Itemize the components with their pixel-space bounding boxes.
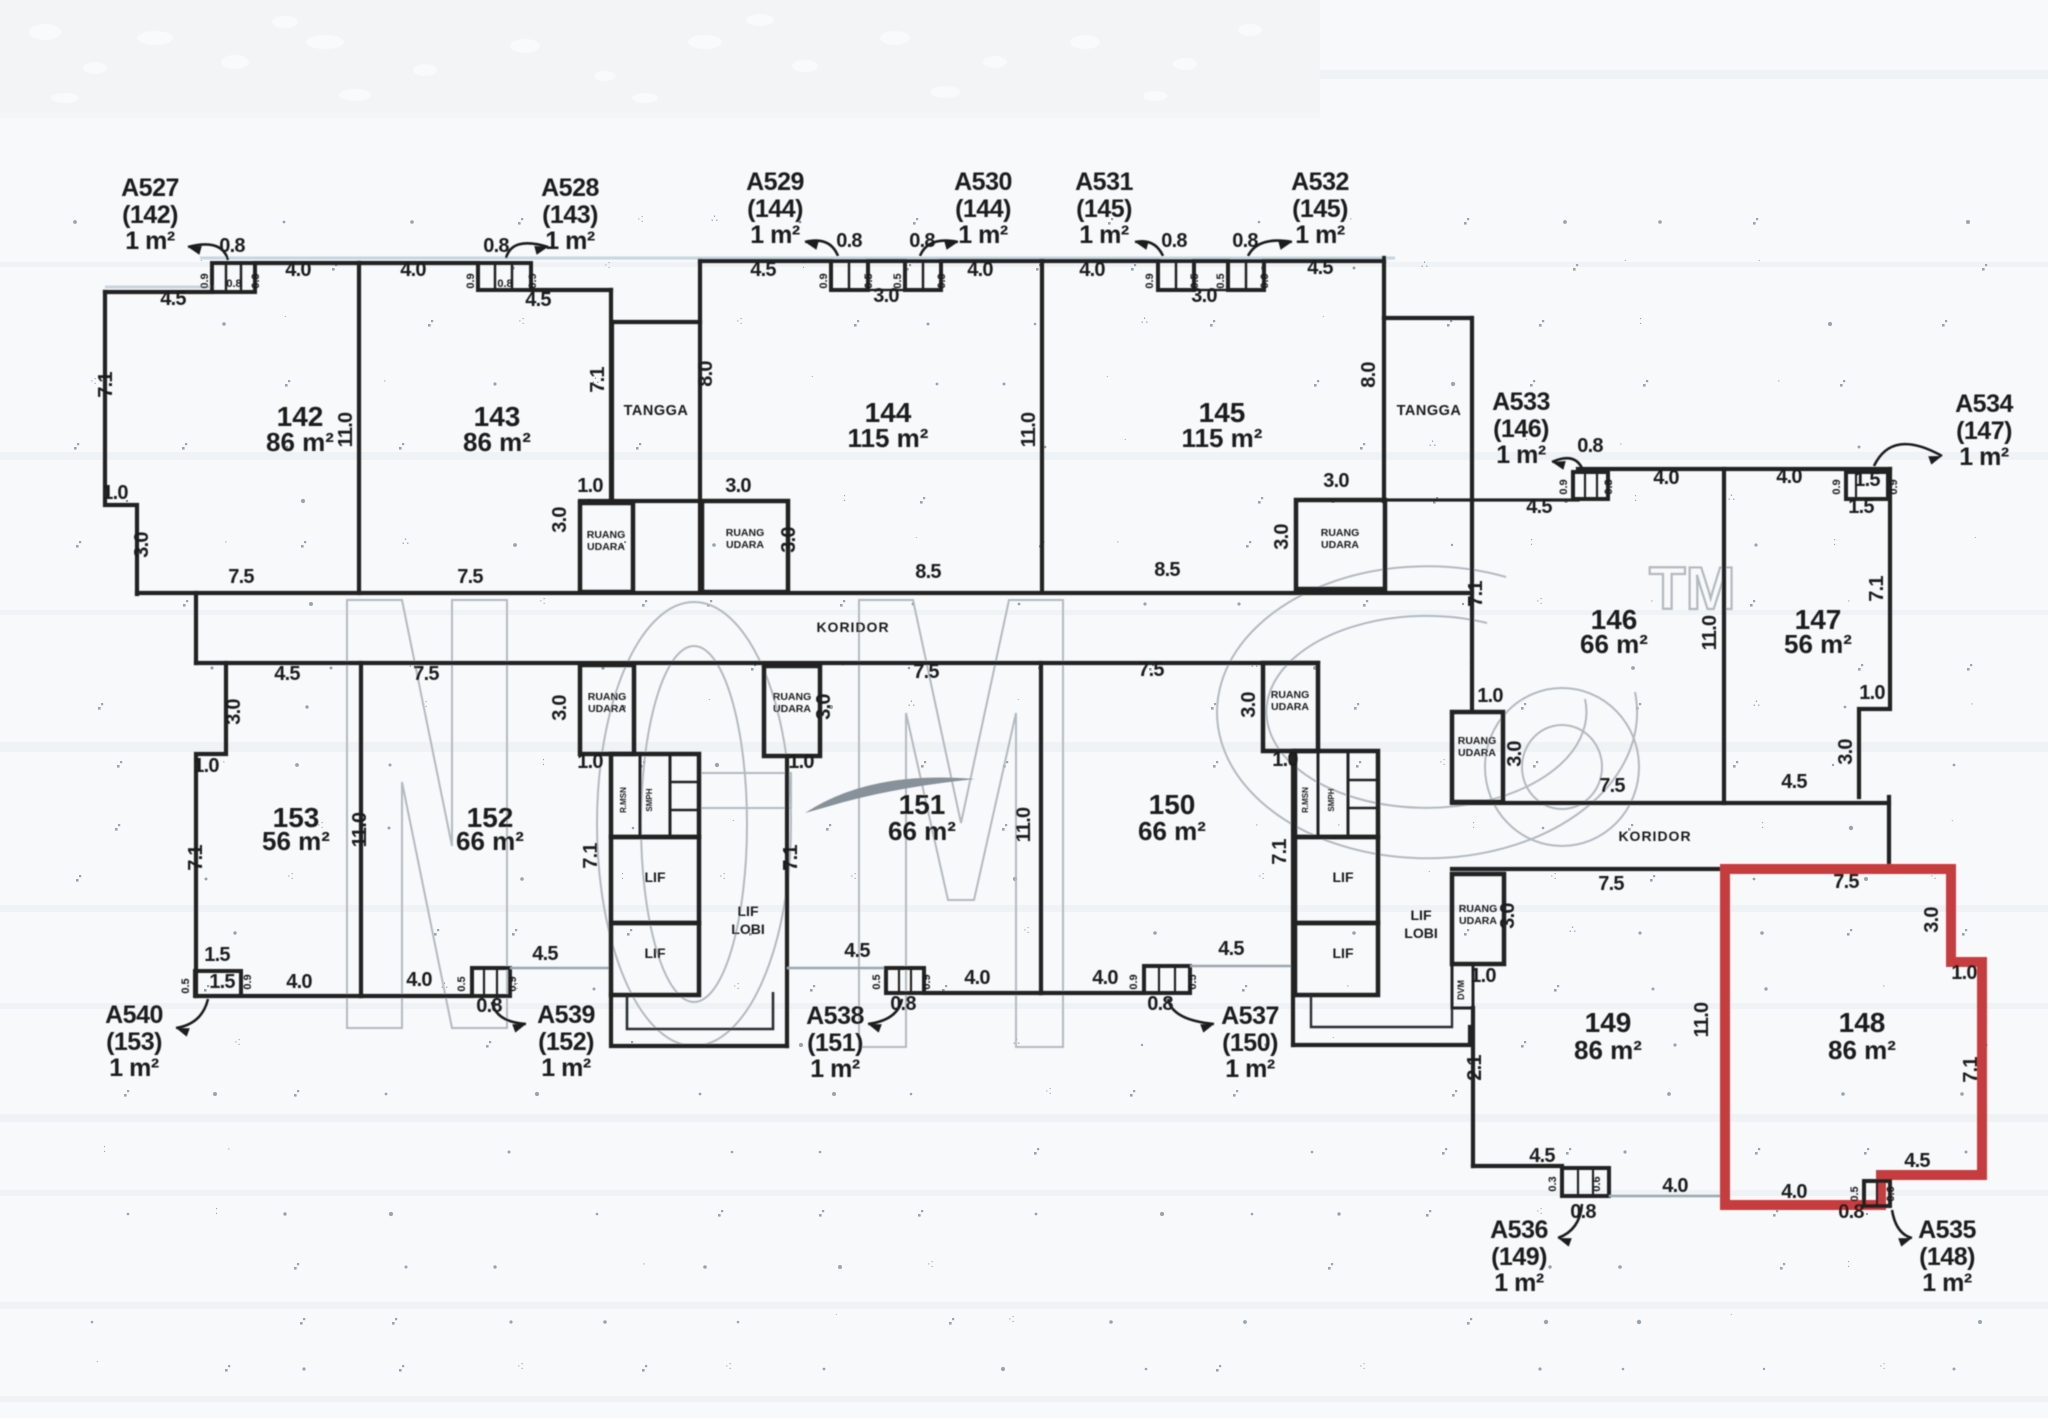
svg-text:˙: ˙: [835, 1313, 839, 1325]
svg-text:∴: ∴: [1569, 924, 1576, 936]
svg-text:RUANG: RUANG: [1458, 735, 1497, 747]
lift cell 1a: [611, 837, 699, 923]
vent box A538: [886, 968, 924, 993]
svg-text:A529: A529: [746, 168, 804, 196]
svg-text:8.0: 8.0: [1358, 362, 1380, 388]
red highlight outline unit 148: [1725, 869, 1982, 1205]
svg-text::: :: [1472, 819, 1475, 831]
svg-text:RUANG: RUANG: [587, 529, 626, 541]
light scan tint above top wall: [200, 257, 1395, 260]
svg-text:∴: ∴: [1753, 698, 1760, 710]
svg-text:0.5: 0.5: [871, 974, 883, 989]
svg-text:(153): (153): [106, 1028, 162, 1056]
svg-text:7.1: 7.1: [1960, 1057, 1982, 1083]
svg-text:A539: A539: [537, 1001, 595, 1029]
svg-text:7.5: 7.5: [228, 566, 254, 588]
vent box A539: [472, 968, 510, 996]
corridor 2 right end wall: [1887, 797, 1891, 869]
svg-text:3.0: 3.0: [131, 532, 153, 558]
svg-text:˙: ˙: [200, 259, 204, 271]
svg-text:66 m²: 66 m²: [1138, 816, 1206, 846]
svg-text:A534: A534: [1955, 390, 2013, 418]
svg-text:7.5: 7.5: [1599, 775, 1625, 797]
svg-text:·: ·: [1970, 698, 1974, 710]
leader arrow A527: [188, 244, 228, 260]
svg-text:1 m²: 1 m²: [1959, 443, 2009, 471]
svg-text:·: ·: [224, 536, 228, 548]
svg-text:0.9: 0.9: [1558, 479, 1570, 494]
bottom wall 151 thin 4.5: [787, 967, 886, 969]
scan noise specks: [73, 213, 1987, 1372]
svg-text:(148): (148): [1919, 1243, 1975, 1271]
top wall 146/147 block: [1578, 467, 1890, 471]
svg-text:∴: ∴: [402, 536, 409, 548]
svg-text:(142): (142): [122, 201, 178, 229]
svg-text:4.0: 4.0: [967, 259, 993, 281]
svg-text:KORIDOR: KORIDOR: [816, 619, 889, 635]
svg-text:·: ·: [222, 756, 226, 768]
svg-text:˙: ˙: [1974, 536, 1978, 548]
svg-text:0.9: 0.9: [1144, 273, 1156, 288]
svg-text:7.5: 7.5: [1598, 873, 1624, 895]
svg-text:66 m²: 66 m²: [888, 816, 956, 846]
svg-text::: :: [843, 492, 846, 504]
svg-text:4.0: 4.0: [1662, 1175, 1688, 1197]
svg-text:·: ·: [1777, 375, 1781, 387]
svg-text:3.0: 3.0: [1921, 907, 1943, 933]
svg-text:·:: ·:: [719, 870, 726, 882]
svg-text:0.3: 0.3: [1603, 479, 1615, 494]
svg-text:·:: ·:: [287, 870, 294, 882]
svg-text::: :: [103, 1143, 106, 1155]
svg-text:1 m²: 1 m²: [1922, 1269, 1972, 1297]
vent box A536: [1562, 1168, 1609, 1196]
svg-text:∴: ∴: [908, 698, 915, 710]
A540 corner box: [195, 971, 241, 996]
svg-text:1 m²: 1 m²: [541, 1054, 591, 1082]
svg-text:1.5: 1.5: [209, 971, 235, 993]
vent box A534 on 147: [1846, 472, 1888, 499]
svg-text:·:: ·:: [736, 315, 743, 327]
lift cell 2a: [1295, 837, 1378, 923]
svg-text:0.5: 0.5: [180, 978, 192, 993]
svg-text:11.0: 11.0: [1699, 615, 1721, 650]
svg-text:86 m²: 86 m²: [1828, 1035, 1896, 1065]
leader arrow A540: [176, 999, 208, 1028]
svg-text:LIF: LIF: [1411, 907, 1432, 923]
svg-text:4.0: 4.0: [1781, 1181, 1807, 1203]
svg-text:LIF: LIF: [645, 945, 666, 961]
divider wall 151/150: [1039, 663, 1043, 993]
lift tower 2 compartments: [1295, 751, 1378, 837]
ruang udara box at 149 top-left: [1452, 874, 1504, 964]
left wall unit 144 / tangga right: [698, 261, 702, 592]
vent box A535 (inside red): [1864, 1181, 1890, 1206]
svg-text:3.0: 3.0: [549, 695, 571, 721]
corridor 2 top wall: [1452, 801, 1889, 805]
svg-text:4.0: 4.0: [406, 969, 432, 991]
svg-text:RUANG: RUANG: [1459, 903, 1498, 915]
svg-text:∴: ∴: [1728, 492, 1735, 504]
svg-text:7.1: 7.1: [185, 845, 207, 871]
svg-text:1 m²: 1 m²: [1496, 441, 1546, 469]
svg-text:4.0: 4.0: [1079, 259, 1105, 281]
svg-text:DVM: DVM: [1456, 980, 1466, 1000]
ruang udara box 150: [1263, 663, 1318, 751]
small shaft box below ruang udara 149: [1452, 964, 1473, 1008]
svg-text::: :: [621, 870, 624, 882]
svg-text:115 m²: 115 m²: [1182, 423, 1263, 453]
ruang udara box at 146 lower left: [1452, 712, 1503, 802]
svg-text:UDARA: UDARA: [1321, 539, 1359, 551]
svg-text:(149): (149): [1491, 1243, 1547, 1271]
svg-text:˙: ˙: [1428, 870, 1432, 882]
svg-text:0.8: 0.8: [483, 235, 509, 257]
svg-text:·:: ·:: [1439, 756, 1446, 768]
svg-text:0.8: 0.8: [476, 995, 502, 1017]
svg-text:3.0: 3.0: [1323, 470, 1349, 492]
svg-text:4.5: 4.5: [1526, 496, 1552, 518]
svg-text:A536: A536: [1490, 1216, 1548, 1244]
lift cell 1b: [611, 923, 699, 995]
svg-text:1.0: 1.0: [1477, 685, 1503, 707]
leader arrow A533: [1552, 458, 1582, 468]
lif lobi 1 bottom walls: [611, 995, 787, 1046]
svg-text:0.6: 0.6: [1591, 1176, 1603, 1191]
svg-text:·:: ·:: [518, 315, 525, 327]
svg-text:4.5: 4.5: [1218, 938, 1244, 960]
thin wall 149 bottom 4.0 segment: [1609, 1195, 1727, 1197]
svg-text:3.0: 3.0: [1497, 903, 1519, 929]
svg-text::: :: [1847, 1258, 1850, 1270]
svg-text:7.1: 7.1: [1866, 576, 1888, 602]
stair TANGGA 2 box: [1384, 316, 1471, 320]
svg-text:(143): (143): [542, 201, 598, 229]
svg-text:˙: ˙: [1017, 698, 1021, 710]
svg-text:˙: ˙: [1951, 819, 1955, 831]
svg-text:0.8: 0.8: [497, 278, 512, 290]
svg-text:˙: ˙: [915, 536, 919, 548]
svg-text:UDARA: UDARA: [1458, 747, 1496, 759]
svg-text:A537: A537: [1221, 1002, 1279, 1030]
svg-text:0.9: 0.9: [936, 273, 948, 288]
svg-text:8.5: 8.5: [1154, 559, 1180, 581]
svg-text:66 m²: 66 m²: [1580, 629, 1648, 659]
svg-text:4.0: 4.0: [964, 967, 990, 989]
svg-text::: :: [1634, 492, 1637, 504]
svg-text:R.MSN: R.MSN: [619, 787, 628, 813]
svg-text:1 m²: 1 m²: [1225, 1055, 1275, 1083]
svg-text:˙: ˙: [1758, 259, 1762, 271]
top wall unit 144: [700, 259, 831, 263]
right wall unit 145: [1382, 258, 1386, 318]
svg-text:(147): (147): [1956, 417, 2012, 445]
svg-text:56 m²: 56 m²: [262, 826, 330, 856]
leader arrow A535: [1892, 1210, 1912, 1238]
svg-text:(152): (152): [538, 1028, 594, 1056]
svg-text:KORIDOR: KORIDOR: [1618, 828, 1691, 844]
svg-text:A533: A533: [1492, 388, 1550, 416]
svg-text:1 m²: 1 m²: [545, 227, 595, 255]
svg-text:0.9: 0.9: [199, 273, 211, 288]
svg-text:·:: ·:: [850, 870, 857, 882]
vent boxes A530 on 144: [905, 261, 941, 290]
svg-text:0.8: 0.8: [226, 278, 241, 290]
svg-text:7.5: 7.5: [1833, 871, 1859, 893]
vent box A528 on unit 143: [478, 263, 531, 290]
svg-text:3.0: 3.0: [223, 699, 245, 725]
svg-text:0.5: 0.5: [863, 273, 875, 288]
divider wall 146/147: [1722, 469, 1726, 803]
svg-text:0.9: 0.9: [242, 974, 254, 989]
svg-text:0.5: 0.5: [456, 976, 468, 991]
bottom wall 151 (4.0): [924, 991, 1041, 995]
svg-text:∴: ∴: [1421, 259, 1428, 271]
svg-text:A528: A528: [541, 174, 599, 202]
svg-text:8.5: 8.5: [915, 561, 941, 583]
corridor 1 left end wall: [194, 593, 198, 663]
svg-text:RUANG: RUANG: [726, 527, 765, 539]
svg-text:56 m²: 56 m²: [1784, 629, 1852, 659]
svg-text:7.1: 7.1: [1269, 839, 1291, 865]
svg-text:(151): (151): [807, 1029, 863, 1057]
svg-text:·: ·: [227, 1143, 231, 1155]
leader arrow A532: [1248, 241, 1292, 256]
svg-text:86 m²: 86 m²: [1574, 1035, 1642, 1065]
wall under tangga2 to 146 (4.5): [1296, 498, 1578, 501]
svg-text:11.0: 11.0: [1691, 1002, 1713, 1037]
lift cell 2b: [1295, 923, 1378, 995]
vent box A533 on 146: [1573, 472, 1608, 499]
svg-text:7.1: 7.1: [580, 843, 602, 869]
svg-text:(145): (145): [1292, 195, 1348, 223]
svg-text:3.0: 3.0: [725, 475, 751, 497]
svg-text:0.8: 0.8: [1161, 230, 1187, 252]
svg-text:0.8: 0.8: [1838, 1201, 1864, 1223]
svg-text::: :: [1833, 536, 1836, 548]
vent boxes A531 on 145: [1158, 261, 1194, 290]
svg-text:1.0: 1.0: [577, 475, 603, 497]
svg-text:11.0: 11.0: [335, 412, 357, 447]
svg-text:115 m²: 115 m²: [848, 423, 929, 453]
svg-text:4.0: 4.0: [1092, 967, 1118, 989]
svg-text:·:: ·:: [1258, 870, 1265, 882]
top wall unit 145: [1042, 259, 1158, 263]
svg-text:0.3: 0.3: [1547, 1176, 1559, 1191]
svg-text:1.0: 1.0: [193, 755, 219, 777]
svg-text:·: ·: [1337, 819, 1341, 831]
right wall unit 143: [609, 290, 613, 501]
svg-text:1.5: 1.5: [204, 944, 230, 966]
svg-text:0.5: 0.5: [1215, 273, 1227, 288]
svg-text:(146): (146): [1493, 415, 1549, 443]
vent boxes A529 on 144: [831, 261, 868, 290]
svg-text:A530: A530: [954, 168, 1012, 196]
svg-text:UDARA: UDARA: [1271, 701, 1309, 713]
svg-text:LIF: LIF: [1333, 945, 1354, 961]
svg-text:·: ·: [642, 1258, 646, 1270]
svg-text:0.8: 0.8: [219, 235, 245, 257]
svg-text:1.0: 1.0: [102, 482, 128, 504]
leader arrow A534: [1874, 444, 1942, 466]
svg-text:A532: A532: [1291, 168, 1349, 196]
svg-text:˙: ˙: [811, 375, 815, 387]
svg-text:11.0: 11.0: [1018, 412, 1040, 447]
svg-text:0.5: 0.5: [1849, 1186, 1861, 1201]
svg-text:0.9: 0.9: [250, 273, 262, 288]
svg-text:149: 149: [1585, 1007, 1632, 1038]
svg-text:A531: A531: [1075, 168, 1133, 196]
svg-text:A538: A538: [806, 1002, 864, 1030]
bottom wall 149 (4.5 segment): [1473, 1164, 1562, 1168]
bottom wall 153: [196, 994, 361, 998]
svg-text:(150): (150): [1222, 1029, 1278, 1057]
svg-text:RUANG: RUANG: [773, 691, 812, 703]
svg-text:3.0: 3.0: [1504, 741, 1526, 767]
svg-text:1 m²: 1 m²: [109, 1054, 159, 1082]
svg-text:1.0: 1.0: [1951, 962, 1977, 984]
bottom wall of top row / corridor top: [137, 591, 1472, 595]
svg-text:RUANG: RUANG: [1321, 527, 1360, 539]
svg-text:4.0: 4.0: [400, 259, 426, 281]
svg-text:·:: ·:: [637, 213, 644, 225]
svg-text:·: ·: [1116, 536, 1120, 548]
ruang udara box below 145: [1296, 500, 1385, 589]
svg-text:A535: A535: [1918, 1216, 1976, 1244]
svg-text:0.5: 0.5: [892, 273, 904, 288]
stair TANGGA 1 box: [612, 320, 700, 324]
svg-text:TANGGA: TANGGA: [1397, 403, 1462, 419]
svg-text:7.1: 7.1: [1465, 581, 1487, 607]
svg-text:0.8: 0.8: [836, 230, 862, 252]
bottom wall 150 thin 4.5: [1190, 965, 1295, 967]
svg-text:1 m²: 1 m²: [1079, 221, 1129, 249]
svg-text:∴: ∴: [1429, 438, 1436, 450]
bottom wall 150 (4.0): [1041, 991, 1144, 995]
svg-text:4.0: 4.0: [285, 259, 311, 281]
svg-text:8.0: 8.0: [695, 361, 717, 387]
svg-text:A527: A527: [121, 174, 179, 202]
svg-text:·: ·: [1346, 980, 1350, 992]
svg-text:148: 148: [1839, 1007, 1886, 1038]
svg-text:86 m²: 86 m²: [463, 427, 531, 457]
svg-text:0.9: 0.9: [1128, 974, 1140, 989]
svg-text:∴: ∴: [711, 213, 718, 225]
svg-text:0.9: 0.9: [465, 273, 477, 288]
vent box A537: [1144, 966, 1190, 993]
svg-text:1 m²: 1 m²: [1295, 221, 1345, 249]
svg-text:11.0: 11.0: [1013, 807, 1035, 842]
svg-text:(145): (145): [1076, 195, 1132, 223]
svg-text:˙: ˙: [1322, 315, 1326, 327]
svg-text:0.9: 0.9: [1831, 479, 1843, 494]
svg-text:7.1: 7.1: [95, 372, 117, 398]
svg-text:·:: ·:: [1536, 595, 1543, 607]
svg-text:UDARA: UDARA: [726, 539, 764, 551]
svg-text:R.MSN: R.MSN: [1301, 787, 1310, 813]
svg-text:1.0: 1.0: [577, 751, 603, 773]
svg-text:·: ·: [1619, 438, 1623, 450]
svg-text:0.8: 0.8: [1232, 230, 1258, 252]
vent boxes A532 on 145: [1228, 261, 1264, 290]
svg-text:UDARA: UDARA: [773, 703, 811, 715]
svg-text:·:: ·:: [733, 980, 740, 992]
svg-text:RUANG: RUANG: [588, 691, 627, 703]
svg-text:4.5: 4.5: [1529, 1145, 1555, 1167]
svg-text:3.0: 3.0: [549, 507, 571, 533]
svg-text:˙: ˙: [1106, 375, 1110, 387]
svg-text:·: ·: [1882, 980, 1886, 992]
svg-text:0.9: 0.9: [921, 974, 933, 989]
svg-text:SMPH: SMPH: [645, 788, 654, 811]
bottom wall 152: [361, 994, 472, 998]
svg-text:0.9: 0.9: [1888, 479, 1900, 494]
svg-text:0.6: 0.6: [1885, 1186, 1897, 1201]
corridor 2 bottom wall (top of 149): [1452, 867, 1727, 871]
lif lobi 2 left wall: [1291, 751, 1295, 1045]
ruang udara box below 143: [580, 503, 633, 592]
svg-text:1 m²: 1 m²: [1494, 1269, 1544, 1297]
svg-text:1 m²: 1 m²: [958, 221, 1008, 249]
leader arrow A529: [805, 241, 838, 256]
svg-text:4.5: 4.5: [160, 288, 186, 310]
svg-text:0.8: 0.8: [909, 230, 935, 252]
svg-text:(144): (144): [747, 195, 803, 223]
svg-text:4.5: 4.5: [1781, 771, 1807, 793]
leader arrow A531: [1135, 241, 1163, 256]
svg-text:86 m²: 86 m²: [266, 427, 334, 457]
svg-text:7.5: 7.5: [913, 661, 939, 683]
svg-text:RUANG: RUANG: [1271, 689, 1310, 701]
svg-text:4.5: 4.5: [525, 289, 551, 311]
leader arrow A536: [1558, 1204, 1582, 1238]
svg-text:0.5: 0.5: [1187, 974, 1199, 989]
svg-text:LIF: LIF: [738, 903, 759, 919]
svg-text:7.5: 7.5: [457, 566, 483, 588]
leader arrow A538: [868, 999, 902, 1024]
svg-text:˙: ˙: [1730, 1313, 1734, 1325]
svg-text:·:: ·:: [1023, 924, 1030, 936]
svg-text:4.0: 4.0: [286, 971, 312, 993]
svg-text:TANGGA: TANGGA: [624, 403, 689, 419]
svg-text:1.0: 1.0: [1470, 965, 1496, 987]
svg-text:LOBI: LOBI: [1404, 925, 1437, 941]
svg-text:·:: ·:: [539, 595, 546, 607]
svg-text:4.0: 4.0: [1653, 467, 1679, 489]
svg-text::: :: [542, 756, 545, 768]
svg-text:·: ·: [1847, 595, 1851, 607]
svg-text:3.0: 3.0: [813, 694, 835, 720]
svg-text:SMPH: SMPH: [1327, 788, 1336, 811]
svg-text:·:: ·:: [1045, 1085, 1052, 1097]
leader arrow A537: [1168, 999, 1214, 1024]
svg-text:0.9: 0.9: [1259, 273, 1271, 288]
svg-text:1.0: 1.0: [788, 751, 814, 773]
lift tower 1 compartments: [611, 754, 699, 837]
watermark NGM Co TM (gray outline letters): [347, 566, 1639, 1047]
wall top unit 143: [359, 261, 478, 265]
svg-text:·:: ·:: [1359, 1360, 1366, 1372]
svg-text:7.1: 7.1: [587, 367, 609, 393]
svg-text:·:: ·:: [604, 259, 611, 271]
svg-text:0.5: 0.5: [1189, 273, 1201, 288]
svg-text:LOBI: LOBI: [731, 921, 764, 937]
svg-text:˙: ˙: [1624, 259, 1628, 271]
vent box A527 on unit 142: [212, 263, 255, 292]
svg-text::: :: [215, 1205, 218, 1217]
svg-text:·:: ·:: [927, 1258, 934, 1270]
ruang udara box 151: [764, 666, 820, 756]
